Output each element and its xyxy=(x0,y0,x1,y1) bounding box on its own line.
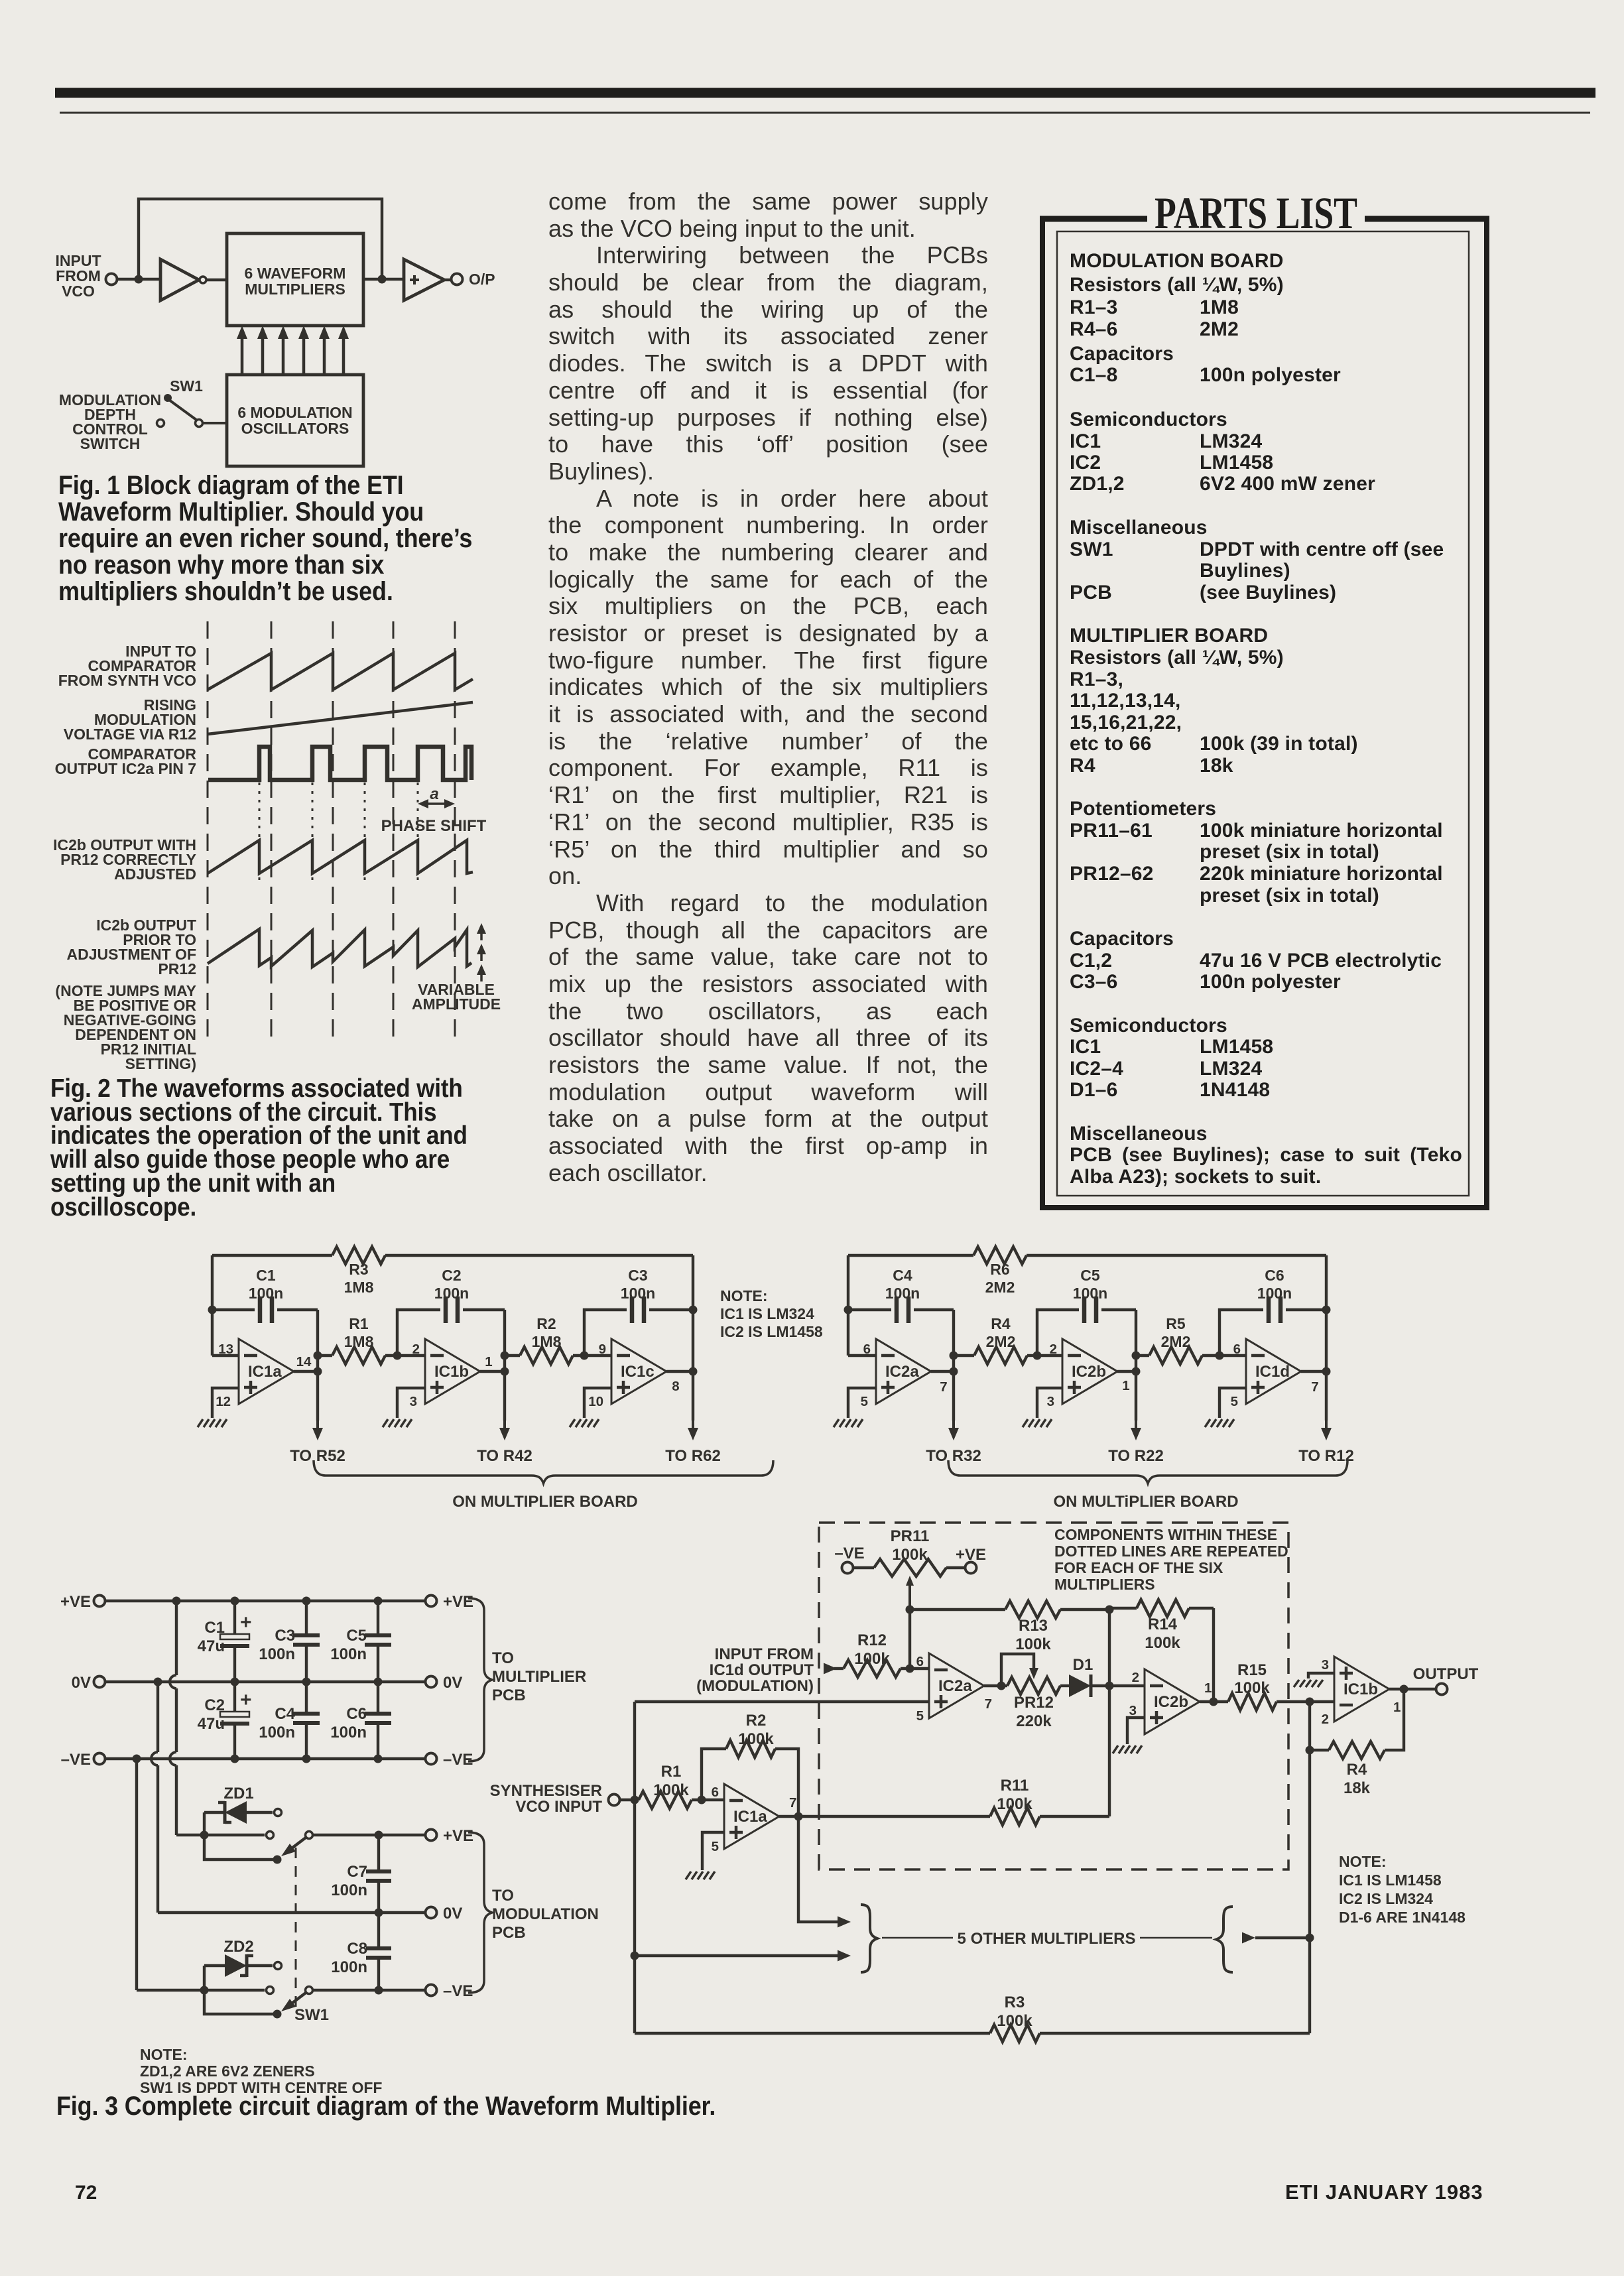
svg-text:100k: 100k xyxy=(1234,1679,1270,1697)
pin label 7 (IC2a mult) xyxy=(985,1696,992,1712)
top thin rule xyxy=(60,112,1590,114)
capacitor C5 (power) xyxy=(330,1601,391,1682)
node R13-R14 junction xyxy=(1105,1606,1114,1614)
capacitor C4 xyxy=(848,1267,954,1323)
svg-text:0V: 0V xyxy=(443,1905,462,1923)
wire right-osc top feedback rail xyxy=(848,1254,1326,1257)
svg-text:–VE: –VE xyxy=(834,1545,864,1562)
svg-text:PR11: PR11 xyxy=(891,1527,930,1545)
op-amp IC1b xyxy=(425,1339,480,1404)
wire IC1b plus input to ground xyxy=(397,1388,425,1418)
svg-text:5: 5 xyxy=(1231,1394,1238,1409)
svg-text:18k: 18k xyxy=(1343,1779,1371,1797)
svg-text:6 WAVEFORM: 6 WAVEFORM xyxy=(245,265,346,282)
svg-text:1M8: 1M8 xyxy=(344,1333,374,1350)
svg-text:100n: 100n xyxy=(259,1645,295,1663)
wire IC2b output xyxy=(1117,1370,1136,1373)
wire C2 right to node xyxy=(501,1310,509,1376)
svg-text:6: 6 xyxy=(1233,1342,1241,1357)
label 5 OTHER MULTIPLIERS xyxy=(882,1930,1212,1948)
resistor R12 xyxy=(834,1631,929,1677)
svg-text:5: 5 xyxy=(916,1708,924,1724)
fig2 label NOTE JUMPS xyxy=(55,982,196,1072)
svg-text:R14: R14 xyxy=(1148,1615,1178,1633)
label TO MULTIPLIER PCB xyxy=(492,1649,586,1704)
svg-text:ZD1,2 ARE 6V2 ZENERS: ZD1,2 ARE 6V2 ZENERS xyxy=(140,2062,315,2080)
svg-text:R11: R11 xyxy=(1001,1777,1029,1795)
parts list outer box xyxy=(1040,219,1489,1208)
svg-text:2M2: 2M2 xyxy=(985,1279,1015,1296)
footer page number xyxy=(75,2182,97,2204)
svg-text:AMPLITUDE: AMPLITUDE xyxy=(412,995,501,1013)
wire IC1a minus input xyxy=(212,1354,239,1357)
svg-text:IC1a: IC1a xyxy=(248,1363,282,1381)
svg-text:–VE: –VE xyxy=(443,1751,473,1769)
label ON MULTIPLIER BOARD (right) xyxy=(1053,1493,1238,1511)
svg-text:100n: 100n xyxy=(621,1285,655,1302)
preset PR12 xyxy=(1001,1654,1060,1730)
svg-text:TO R12: TO R12 xyxy=(1298,1447,1354,1465)
svg-text:–VE: –VE xyxy=(443,1982,473,2000)
wire right-osc left rail xyxy=(844,1255,853,1356)
fig1 label INPUT FROM VCO xyxy=(56,252,101,300)
pin label 2 xyxy=(412,1342,420,1357)
op-amp IC1b (output) xyxy=(1334,1657,1389,1722)
fig2 waveform IC2b output prior to adjustment xyxy=(208,929,471,967)
svg-text:100k: 100k xyxy=(1015,1635,1051,1653)
svg-text:MODULATION: MODULATION xyxy=(492,1905,599,1923)
resistor R1 xyxy=(318,1315,397,1364)
resistor R4 (18k) xyxy=(1306,1689,1405,1797)
svg-text:COMPONENTS WITHIN THESE: COMPONENTS WITHIN THESE xyxy=(1054,1526,1277,1543)
note IC1 IC2 types xyxy=(720,1287,823,1340)
wire left-osc top feedback rail xyxy=(212,1254,693,1257)
svg-text:100n: 100n xyxy=(434,1285,469,1302)
svg-text:3: 3 xyxy=(1129,1703,1137,1718)
svg-text:7: 7 xyxy=(940,1379,947,1395)
svg-text:IC1d: IC1d xyxy=(1255,1363,1290,1381)
wire +VE modulation rail xyxy=(312,1831,425,1840)
pin label 2 (IC1b) xyxy=(1322,1712,1329,1727)
fig2 waveform rising modulation voltage xyxy=(208,702,473,734)
svg-text:100n: 100n xyxy=(1257,1285,1292,1302)
fig2 label INPUT TO COMPARATOR FROM SYNTH VCO xyxy=(58,643,197,689)
svg-text:R4: R4 xyxy=(991,1315,1011,1332)
svg-text:DOTTED LINES ARE REPEATED: DOTTED LINES ARE REPEATED xyxy=(1054,1543,1288,1560)
ground IC1b xyxy=(383,1419,412,1427)
wire 0V rail xyxy=(106,1678,424,1686)
svg-text:7: 7 xyxy=(1311,1379,1318,1395)
terminal -VE in xyxy=(61,1751,105,1769)
svg-text:IC1 IS LM1458: IC1 IS LM1458 xyxy=(1339,1871,1442,1889)
svg-text:3: 3 xyxy=(410,1394,417,1409)
wire ZD2 bypass stub xyxy=(204,1987,274,1994)
label TO R22 xyxy=(1108,1447,1164,1465)
input arrow modulation xyxy=(824,1663,837,1675)
ground IC1d xyxy=(1205,1419,1234,1427)
wire C4 right to node xyxy=(950,1310,958,1376)
terminal +VE in xyxy=(60,1593,105,1611)
svg-text:SWITCH: SWITCH xyxy=(80,435,141,452)
svg-text:+: + xyxy=(240,1612,252,1633)
arrow to R42 xyxy=(499,1371,510,1440)
label ZD2 xyxy=(223,1938,253,1956)
capacitor C8 xyxy=(331,1913,391,1990)
svg-text:R3: R3 xyxy=(349,1261,368,1278)
svg-text:R6: R6 xyxy=(990,1261,1009,1278)
fig1 arrows oscillators to multipliers xyxy=(237,326,349,375)
fig2 variable amplitude arrows xyxy=(477,923,486,981)
wire IC1d plus input to ground xyxy=(1219,1388,1246,1418)
brace left oscillator xyxy=(314,1460,773,1484)
wire IC1b pin3 to ground xyxy=(1308,1673,1334,1678)
label TO MODULATION PCB xyxy=(492,1887,599,1942)
svg-text:6: 6 xyxy=(712,1785,719,1800)
resistor R11 xyxy=(798,1777,1109,1825)
svg-text:R2: R2 xyxy=(536,1315,556,1332)
pin label 2 (IC2b) xyxy=(1050,1342,1057,1357)
svg-text:ZD2: ZD2 xyxy=(223,1938,253,1956)
svg-text:a: a xyxy=(430,785,438,803)
wire IC2a minus input xyxy=(848,1354,876,1357)
svg-text:C8: C8 xyxy=(347,1940,367,1958)
svg-text:ADJUSTED: ADJUSTED xyxy=(114,865,196,883)
resistor R4 (osc) xyxy=(954,1315,1037,1364)
svg-text:100k: 100k xyxy=(892,1546,928,1564)
terminal +VE out (mult) xyxy=(426,1593,474,1611)
svg-text:SW1: SW1 xyxy=(294,2006,329,2024)
fig1 label SW1 xyxy=(170,377,203,395)
fig3 caption xyxy=(56,2092,716,2121)
fig2 waveform comparator output square wave xyxy=(208,747,471,780)
switch SW1 pole 1 lever xyxy=(281,1832,313,1857)
capacitor C7 xyxy=(331,1835,391,1913)
svg-text:IC1 IS LM324: IC1 IS LM324 xyxy=(720,1305,814,1322)
svg-text:IC1c: IC1c xyxy=(621,1363,655,1381)
ground IC1a xyxy=(198,1419,227,1427)
label TO R42 xyxy=(477,1447,532,1465)
terminal +VE out (mod) xyxy=(426,1827,474,1845)
label components repeated xyxy=(1054,1526,1288,1593)
capacitor C6 xyxy=(1219,1267,1326,1356)
svg-text:R5: R5 xyxy=(1166,1315,1186,1332)
svg-text:NOTE:: NOTE: xyxy=(720,1287,768,1304)
label OUTPUT xyxy=(1413,1665,1479,1683)
wire PR11 wiper to pin6 xyxy=(906,1610,914,1673)
pin label 3 xyxy=(410,1394,417,1409)
svg-text:NOTE:: NOTE: xyxy=(140,2046,188,2063)
svg-text:PR12: PR12 xyxy=(158,960,196,978)
body text column xyxy=(548,188,988,1186)
svg-text:2M2: 2M2 xyxy=(1161,1333,1191,1350)
wire R11 riser xyxy=(1108,1686,1111,1816)
footer magazine date xyxy=(1285,2181,1483,2204)
wire IC2a mult output xyxy=(984,1682,1006,1690)
label +VE (PR11) xyxy=(956,1546,986,1564)
svg-text:IC2b: IC2b xyxy=(1072,1363,1106,1381)
svg-text:5: 5 xyxy=(861,1394,868,1409)
fig1 summing amp xyxy=(404,259,444,300)
wire C1 right to node xyxy=(314,1310,322,1376)
terminal VCO input xyxy=(609,1795,620,1806)
svg-text:R1: R1 xyxy=(349,1315,369,1332)
svg-text:IC1b: IC1b xyxy=(1343,1680,1378,1698)
svg-text:7: 7 xyxy=(985,1696,992,1712)
svg-text:PCB: PCB xyxy=(492,1924,526,1942)
arrow to R12 xyxy=(1321,1371,1332,1440)
resistor R13 xyxy=(1005,1601,1109,1653)
dashed repeat box xyxy=(819,1523,1288,1869)
terminal 0V out (mult) xyxy=(426,1674,463,1692)
fig2 caption xyxy=(50,1077,528,1219)
op-amp IC1a (mult) xyxy=(724,1784,779,1849)
pin label 1 (IC2b mult) xyxy=(1204,1680,1212,1696)
svg-text:100n: 100n xyxy=(885,1285,920,1302)
svg-text:R4: R4 xyxy=(1347,1761,1367,1779)
pin label 14 xyxy=(296,1354,312,1369)
fig2 label PHASE SHIFT xyxy=(381,817,487,835)
resistor R2 (mult) xyxy=(702,1712,798,1816)
svg-text:TO: TO xyxy=(492,1649,514,1667)
brace other multipliers right xyxy=(1216,1907,1233,1972)
svg-text:100k: 100k xyxy=(854,1650,890,1668)
svg-text:C1: C1 xyxy=(204,1619,225,1637)
fig1 switch SW1 xyxy=(157,394,227,427)
pin label 12 xyxy=(216,1394,231,1409)
svg-text:FOR EACH OF THE SIX: FOR EACH OF THE SIX xyxy=(1054,1559,1223,1576)
op-amp IC2a (osc) xyxy=(876,1339,931,1404)
wire R14 to IC2b output node xyxy=(1212,1608,1215,1702)
pin label 5 (IC1d) xyxy=(1231,1394,1238,1409)
svg-text:R12: R12 xyxy=(857,1631,887,1649)
fig2 label IC2b OUTPUT WITH PR12 CORRECTLY ADJUSTED xyxy=(53,836,196,883)
wire IC1d minus node xyxy=(1216,1352,1247,1360)
wire +VE rail xyxy=(106,1597,424,1606)
wire input to other multipliers xyxy=(635,1950,851,1962)
svg-text:IC2 IS LM1458: IC2 IS LM1458 xyxy=(720,1323,823,1340)
label SYNTHESISER VCO INPUT xyxy=(490,1782,603,1816)
wire R13R14 junction down to D1 node xyxy=(1105,1610,1114,1690)
pin label 6 (IC1a mult) xyxy=(712,1785,719,1800)
pin label 6 (IC2a) xyxy=(863,1342,871,1357)
svg-text:INPUT FROM: INPUT FROM xyxy=(715,1645,814,1663)
svg-text:2M2: 2M2 xyxy=(986,1333,1016,1350)
pin label 1 (IC1b) xyxy=(485,1354,492,1369)
svg-text:C3: C3 xyxy=(628,1267,647,1284)
svg-text:220k: 220k xyxy=(1016,1712,1052,1730)
fig2 label COMPARATOR OUTPUT IC2a PIN 7 xyxy=(55,745,197,777)
capacitor C2 xyxy=(397,1267,505,1356)
svg-text:PHASE SHIFT: PHASE SHIFT xyxy=(381,817,487,835)
svg-text:C7: C7 xyxy=(347,1863,367,1881)
svg-text:100n: 100n xyxy=(259,1724,295,1741)
pin label 9 xyxy=(599,1342,606,1357)
diode D1 xyxy=(1060,1656,1109,1697)
arrow to R22 xyxy=(1131,1371,1141,1440)
fig2 waveform IC2b output adjusted xyxy=(208,840,473,873)
ground IC2a xyxy=(834,1419,863,1427)
wire switch pole 1 common xyxy=(204,1835,282,1864)
pin label 3 (IC2b mult) xyxy=(1129,1703,1137,1718)
terminal 0V in xyxy=(72,1674,105,1692)
capacitor C6 (power) xyxy=(330,1682,391,1759)
fig2 period dashed gridlines xyxy=(208,621,455,1038)
svg-text:1M8: 1M8 xyxy=(532,1333,562,1350)
svg-text:1: 1 xyxy=(1122,1378,1129,1393)
svg-text:+VE: +VE xyxy=(443,1593,473,1611)
svg-text:C6: C6 xyxy=(346,1705,367,1723)
resistor R15 xyxy=(1228,1661,1334,1710)
wire left-osc right rail xyxy=(689,1255,698,1376)
arrow to R62 xyxy=(688,1371,698,1440)
svg-text:100k: 100k xyxy=(738,1730,774,1748)
svg-text:5 OTHER MULTIPLIERS: 5 OTHER MULTIPLIERS xyxy=(958,1930,1136,1948)
capacitor C3 xyxy=(584,1267,693,1356)
svg-text:MULTIPLIERS: MULTIPLIERS xyxy=(245,281,345,298)
svg-text:0V: 0V xyxy=(443,1674,462,1692)
wire -VE modulation rail xyxy=(312,1986,425,1995)
svg-text:IC2b: IC2b xyxy=(1154,1693,1188,1711)
svg-text:–VE: –VE xyxy=(61,1751,91,1769)
svg-text:OUTPUT: OUTPUT xyxy=(1413,1665,1479,1683)
svg-text:VCO INPUT: VCO INPUT xyxy=(515,1798,602,1816)
wire to IC2a plus input xyxy=(635,1700,929,1703)
switch SW1 pole 2 lever xyxy=(281,1987,313,2012)
svg-text:100k: 100k xyxy=(997,2012,1032,2030)
svg-text:9: 9 xyxy=(599,1342,606,1357)
parts list title rule left xyxy=(1040,216,1147,222)
fig1 output terminal xyxy=(452,274,463,285)
svg-text:8: 8 xyxy=(672,1379,679,1394)
op-amp IC1c xyxy=(611,1339,666,1404)
top thick rule xyxy=(55,88,1595,98)
resistor R1 (mult) xyxy=(620,1763,724,1808)
svg-text:NOTE:: NOTE: xyxy=(1339,1853,1387,1870)
svg-text:1: 1 xyxy=(1204,1680,1212,1696)
ground IC2b (mult) xyxy=(1113,1745,1142,1753)
ground IC1c xyxy=(570,1419,599,1427)
svg-text:47u: 47u xyxy=(198,1715,225,1733)
svg-text:C5: C5 xyxy=(1080,1267,1100,1284)
svg-text:IC1b: IC1b xyxy=(434,1363,469,1381)
fig2 waveform input sawtooth from synth VCO xyxy=(208,653,473,690)
svg-text:FROM SYNTH VCO: FROM SYNTH VCO xyxy=(58,672,196,689)
svg-text:+: + xyxy=(240,1689,252,1711)
wire IC2b plus to ground xyxy=(1127,1718,1145,1744)
svg-text:47u: 47u xyxy=(198,1637,225,1655)
fig2 label VARIABLE AMPLITUDE xyxy=(412,981,501,1013)
wire IC2b plus input to ground xyxy=(1037,1388,1062,1418)
pin label 13 xyxy=(218,1342,233,1357)
svg-text:100k: 100k xyxy=(653,1781,689,1799)
label INPUT FROM IC1d OUTPUT xyxy=(696,1645,814,1695)
pin label 5 (IC1a mult) xyxy=(712,1839,719,1854)
wire IC1c output to right rail xyxy=(666,1370,693,1373)
svg-text:R1: R1 xyxy=(661,1763,682,1781)
ground IC2b (osc) xyxy=(1023,1419,1052,1427)
wire IC1d output to right rail xyxy=(1301,1370,1326,1373)
svg-text:10: 10 xyxy=(588,1394,603,1409)
resistor R5 xyxy=(1136,1315,1219,1364)
svg-text:2: 2 xyxy=(412,1342,420,1357)
svg-text:IC2 IS LM324: IC2 IS LM324 xyxy=(1339,1890,1433,1907)
svg-text:C4: C4 xyxy=(275,1705,295,1723)
pin label 5 (IC2a mult) xyxy=(916,1708,924,1724)
svg-text:IC2a: IC2a xyxy=(938,1677,972,1695)
svg-text:R3: R3 xyxy=(1005,1993,1025,2011)
wire -VE rail xyxy=(106,1755,424,1763)
wire PR11 wiper to R13 xyxy=(906,1606,1006,1614)
note zeners and switch xyxy=(140,2046,382,2096)
label SW1 (fig3) xyxy=(294,2006,329,2024)
op-amp IC2a (multiplier) xyxy=(929,1653,984,1718)
resistor R14 xyxy=(1109,1600,1214,1652)
svg-text:TO R42: TO R42 xyxy=(477,1447,532,1465)
fig1 caption xyxy=(58,472,536,605)
pin label 3 (IC1b) xyxy=(1322,1657,1329,1673)
fig1 wire input to buffer xyxy=(117,275,160,284)
parts list text xyxy=(1070,0,1462,1)
wire IC1a plus to ground xyxy=(702,1832,724,1870)
svg-text:C3: C3 xyxy=(275,1627,295,1645)
capacitor C1 (power 47u) xyxy=(198,1601,252,1682)
capacitor C4 (power) xyxy=(259,1682,320,1759)
wire IC1a mult output xyxy=(779,1812,803,1821)
ground IC1a (mult) xyxy=(686,1871,715,1879)
svg-text:IC1d OUTPUT: IC1d OUTPUT xyxy=(710,1661,814,1679)
svg-text:+VE: +VE xyxy=(443,1827,473,1845)
switch SW1 mechanical link xyxy=(295,1848,297,2008)
fig1 wire box to summer xyxy=(363,275,404,284)
resistor R6 xyxy=(973,1247,1027,1296)
pin label 2 (IC2b mult) xyxy=(1132,1670,1139,1685)
wire right-osc right rail xyxy=(1322,1255,1331,1376)
svg-text:ON MULTIPLIER BOARD: ON MULTIPLIER BOARD xyxy=(452,1493,638,1511)
svg-text:6: 6 xyxy=(863,1342,871,1357)
svg-text:100n: 100n xyxy=(330,1645,367,1663)
svg-text:MULTIPLIERS: MULTIPLIERS xyxy=(1054,1576,1155,1593)
svg-text:MULTIPLIER: MULTIPLIER xyxy=(492,1668,586,1686)
svg-text:C6: C6 xyxy=(1265,1267,1284,1284)
fig1 label O/P xyxy=(469,271,495,288)
svg-text:100n: 100n xyxy=(331,1881,367,1899)
svg-text:7: 7 xyxy=(789,1795,796,1810)
wire IC2a plus input to ground xyxy=(848,1388,876,1418)
label TO R62 xyxy=(665,1447,721,1465)
resistor R2 xyxy=(505,1315,584,1364)
svg-text:VCO: VCO xyxy=(62,283,95,300)
svg-text:2: 2 xyxy=(1050,1342,1057,1357)
label -VE (PR11) xyxy=(834,1545,864,1562)
svg-text:0V: 0V xyxy=(72,1674,91,1692)
pin label 1 (IC1b) xyxy=(1393,1700,1401,1715)
wire IC2b minus node xyxy=(1033,1352,1063,1360)
svg-text:13: 13 xyxy=(218,1342,233,1357)
wire 0V modulation rail xyxy=(158,1909,425,1917)
wire VCO input riser xyxy=(631,1702,639,2033)
wire +VE tap down to ZD1 xyxy=(170,1601,176,1835)
svg-text:ON MULTiPLIER BOARD: ON MULTiPLIER BOARD xyxy=(1053,1493,1238,1511)
resistor R3 (mult) xyxy=(635,1993,1310,2042)
label TO R12 xyxy=(1298,1447,1354,1465)
capacitor C2 (power 47u) xyxy=(198,1682,252,1759)
fig1 label MODULATION DEPTH CONTROL SWITCH xyxy=(59,391,161,452)
svg-text:SW1: SW1 xyxy=(170,377,203,395)
parts list inner box xyxy=(1057,231,1469,1196)
svg-text:PARTS LIST: PARTS LIST xyxy=(1155,188,1357,238)
resistor R3 xyxy=(332,1247,385,1296)
svg-text:6: 6 xyxy=(916,1654,924,1669)
